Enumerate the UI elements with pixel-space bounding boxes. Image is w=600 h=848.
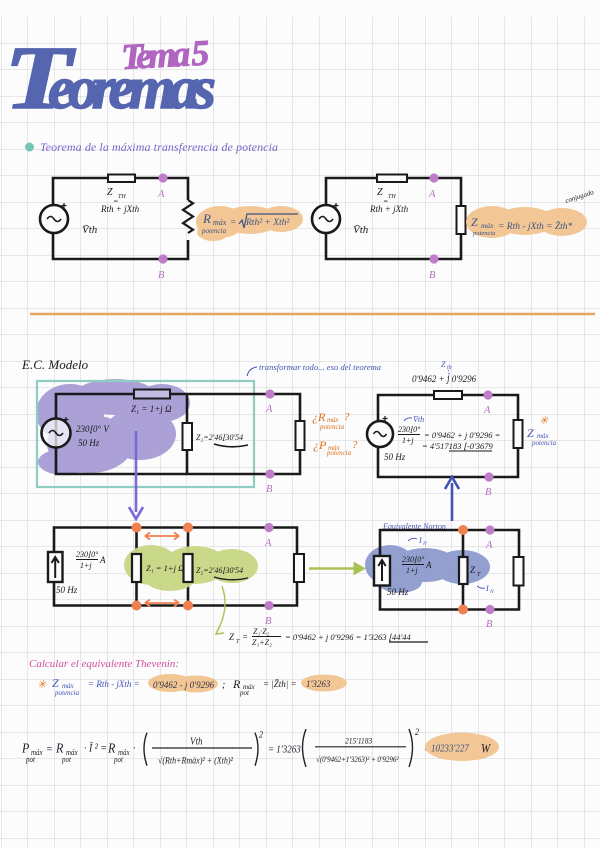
svg-text:A: A (99, 555, 106, 565)
svg-text:=: = (242, 632, 248, 642)
svg-text:Z: Z (441, 360, 446, 369)
svg-text:·: · (133, 742, 136, 755)
svg-text:Z: Z (527, 426, 534, 440)
svg-text:=: = (46, 743, 53, 756)
svg-text:230⌊0°: 230⌊0° (402, 555, 425, 564)
svg-text:1'3263: 1'3263 (306, 679, 331, 689)
svg-text:V̄th: V̄th (413, 415, 424, 424)
svg-text:pot: pot (239, 689, 250, 697)
svg-text:50 Hz: 50 Hz (56, 585, 78, 595)
svg-text:1+j: 1+j (402, 436, 414, 445)
svg-text:Rth + jXth: Rth + jXth (100, 204, 140, 214)
svg-text:✳: ✳ (539, 415, 549, 427)
svg-text:50 Hz: 50 Hz (78, 438, 100, 448)
svg-text:potencia: potencia (472, 230, 495, 237)
svg-text:B: B (486, 619, 493, 630)
svg-text:230⌊0°: 230⌊0° (398, 425, 421, 434)
svg-text:potencia: potencia (54, 689, 80, 697)
svg-text:0'9462 + j 0'9296: 0'9462 + j 0'9296 (412, 374, 477, 384)
svg-text:B: B (158, 270, 165, 281)
svg-text:Z₂=2'46⌊30'54: Z₂=2'46⌊30'54 (196, 566, 243, 575)
svg-text:B: B (429, 270, 436, 281)
svg-text:máx: máx (481, 221, 494, 230)
svg-text:Z: Z (52, 676, 59, 690)
svg-text:R: R (202, 211, 211, 226)
svg-text:A: A (425, 560, 432, 570)
svg-text:máx: máx (213, 218, 227, 227)
svg-text:50 Hz: 50 Hz (384, 452, 406, 462)
svg-text:= Rth - jXth = Z̄th*: = Rth - jXth = Z̄th* (498, 221, 573, 232)
svg-text:Rth² + Xth²: Rth² + Xth² (245, 218, 289, 228)
svg-text:B: B (265, 616, 272, 627)
svg-text:√(0'9462+1'3263)² + 0'9296²: √(0'9462+1'3263)² + 0'9296² (316, 755, 399, 765)
svg-text:1+j: 1+j (406, 566, 418, 575)
svg-text:?: ? (352, 439, 358, 451)
svg-text:B: B (266, 484, 273, 495)
svg-text:potencia: potencia (319, 423, 345, 431)
svg-text:= 0'9462 + j 0'9296 =: = 0'9462 + j 0'9296 = (424, 430, 500, 440)
svg-text:Z: Z (471, 215, 478, 229)
svg-text:Teorema de la máxima transfere: Teorema de la máxima transferencia de po… (40, 140, 278, 154)
svg-text:pot: pot (113, 755, 124, 765)
svg-text:230⌊0° V: 230⌊0° V (76, 424, 110, 434)
svg-text:W: W (481, 741, 491, 756)
svg-text:= 4'517183 ⌊-0'3679: = 4'517183 ⌊-0'3679 (422, 441, 494, 451)
svg-text:2: 2 (259, 729, 264, 740)
svg-text:Z₁ = 1+j Ω: Z₁ = 1+j Ω (131, 404, 172, 414)
svg-text:A: A (485, 540, 493, 551)
svg-text:pot: pot (61, 755, 72, 765)
svg-text:P: P (21, 740, 29, 756)
svg-text:potencia: potencia (326, 449, 352, 457)
svg-text:¿R: ¿R (312, 410, 326, 424)
svg-text:=: = (230, 217, 236, 227)
svg-text:A: A (157, 189, 165, 200)
svg-text:= 0'9462 + j 0'9296 = 1'3263 ⌊: = 0'9462 + j 0'9296 = 1'3263 ⌊44'44 (285, 632, 412, 642)
svg-text:¿P: ¿P (313, 438, 327, 452)
svg-text:✳: ✳ (37, 679, 47, 691)
svg-text:N: N (422, 541, 427, 547)
svg-text:eoremas: eoremas (48, 55, 216, 121)
svg-text:Rth + jXth: Rth + jXth (369, 204, 409, 214)
svg-text:th: th (447, 365, 452, 371)
svg-text:transformar todo... eso del te: transformar todo... eso del teorema (259, 362, 381, 372)
svg-text:230⌊0°: 230⌊0° (76, 550, 99, 559)
svg-text:I: I (485, 584, 489, 593)
svg-text:A: A (264, 538, 272, 549)
svg-text:N: N (489, 589, 494, 595)
svg-text:50 Hz: 50 Hz (387, 587, 409, 597)
svg-text:Vth: Vth (190, 736, 203, 748)
svg-text:10233'227: 10233'227 (431, 743, 470, 755)
svg-text:TH: TH (118, 194, 126, 200)
svg-text:R: R (107, 740, 115, 756)
svg-text:= |Z̄th| =: = |Z̄th| = (263, 679, 297, 689)
svg-text:E.C. Modelo: E.C. Modelo (21, 357, 89, 372)
svg-text:2: 2 (415, 726, 420, 737)
svg-text:pot: pot (25, 755, 36, 765)
svg-text:V̄th: V̄th (353, 224, 369, 236)
svg-text:Z₂=2'46⌊30'54: Z₂=2'46⌊30'54 (196, 433, 243, 442)
svg-text:· Ī ² =: · Ī ² = (84, 742, 107, 755)
svg-text:A: A (483, 405, 491, 416)
svg-text:0'9462 - j 0'9296: 0'9462 - j 0'9296 (153, 680, 215, 690)
svg-text:Z₁·Z₂: Z₁·Z₂ (253, 627, 270, 636)
svg-text:1+j: 1+j (80, 561, 92, 570)
svg-text:R: R (55, 740, 63, 756)
svg-text:V̄th: V̄th (82, 224, 98, 236)
svg-text:B: B (485, 487, 492, 498)
svg-text:A: A (265, 404, 273, 415)
svg-text:Z₁ = 1+j Ω: Z₁ = 1+j Ω (146, 563, 184, 573)
svg-text:215'1183: 215'1183 (345, 736, 372, 746)
svg-text:I: I (418, 536, 422, 545)
svg-text:?: ? (344, 411, 350, 423)
svg-text:potencia: potencia (531, 439, 557, 447)
svg-text:Calcular el equivalente Theven: Calcular el equivalente Thevenin: (29, 658, 179, 670)
svg-text:;: ; (222, 680, 225, 691)
svg-text:√(Rth+Rmáx)² + (Xth)²: √(Rth+Rmáx)² + (Xth)² (158, 755, 233, 766)
svg-text:= Rth - jXth =: = Rth - jXth = (88, 679, 140, 689)
svg-text:potencia: potencia (201, 227, 227, 235)
svg-text:= 1'3263: = 1'3263 (268, 744, 301, 756)
svg-text:A: A (428, 189, 436, 200)
svg-text:TH: TH (388, 194, 396, 200)
svg-text:Z₁+Z₂: Z₁+Z₂ (252, 638, 272, 647)
